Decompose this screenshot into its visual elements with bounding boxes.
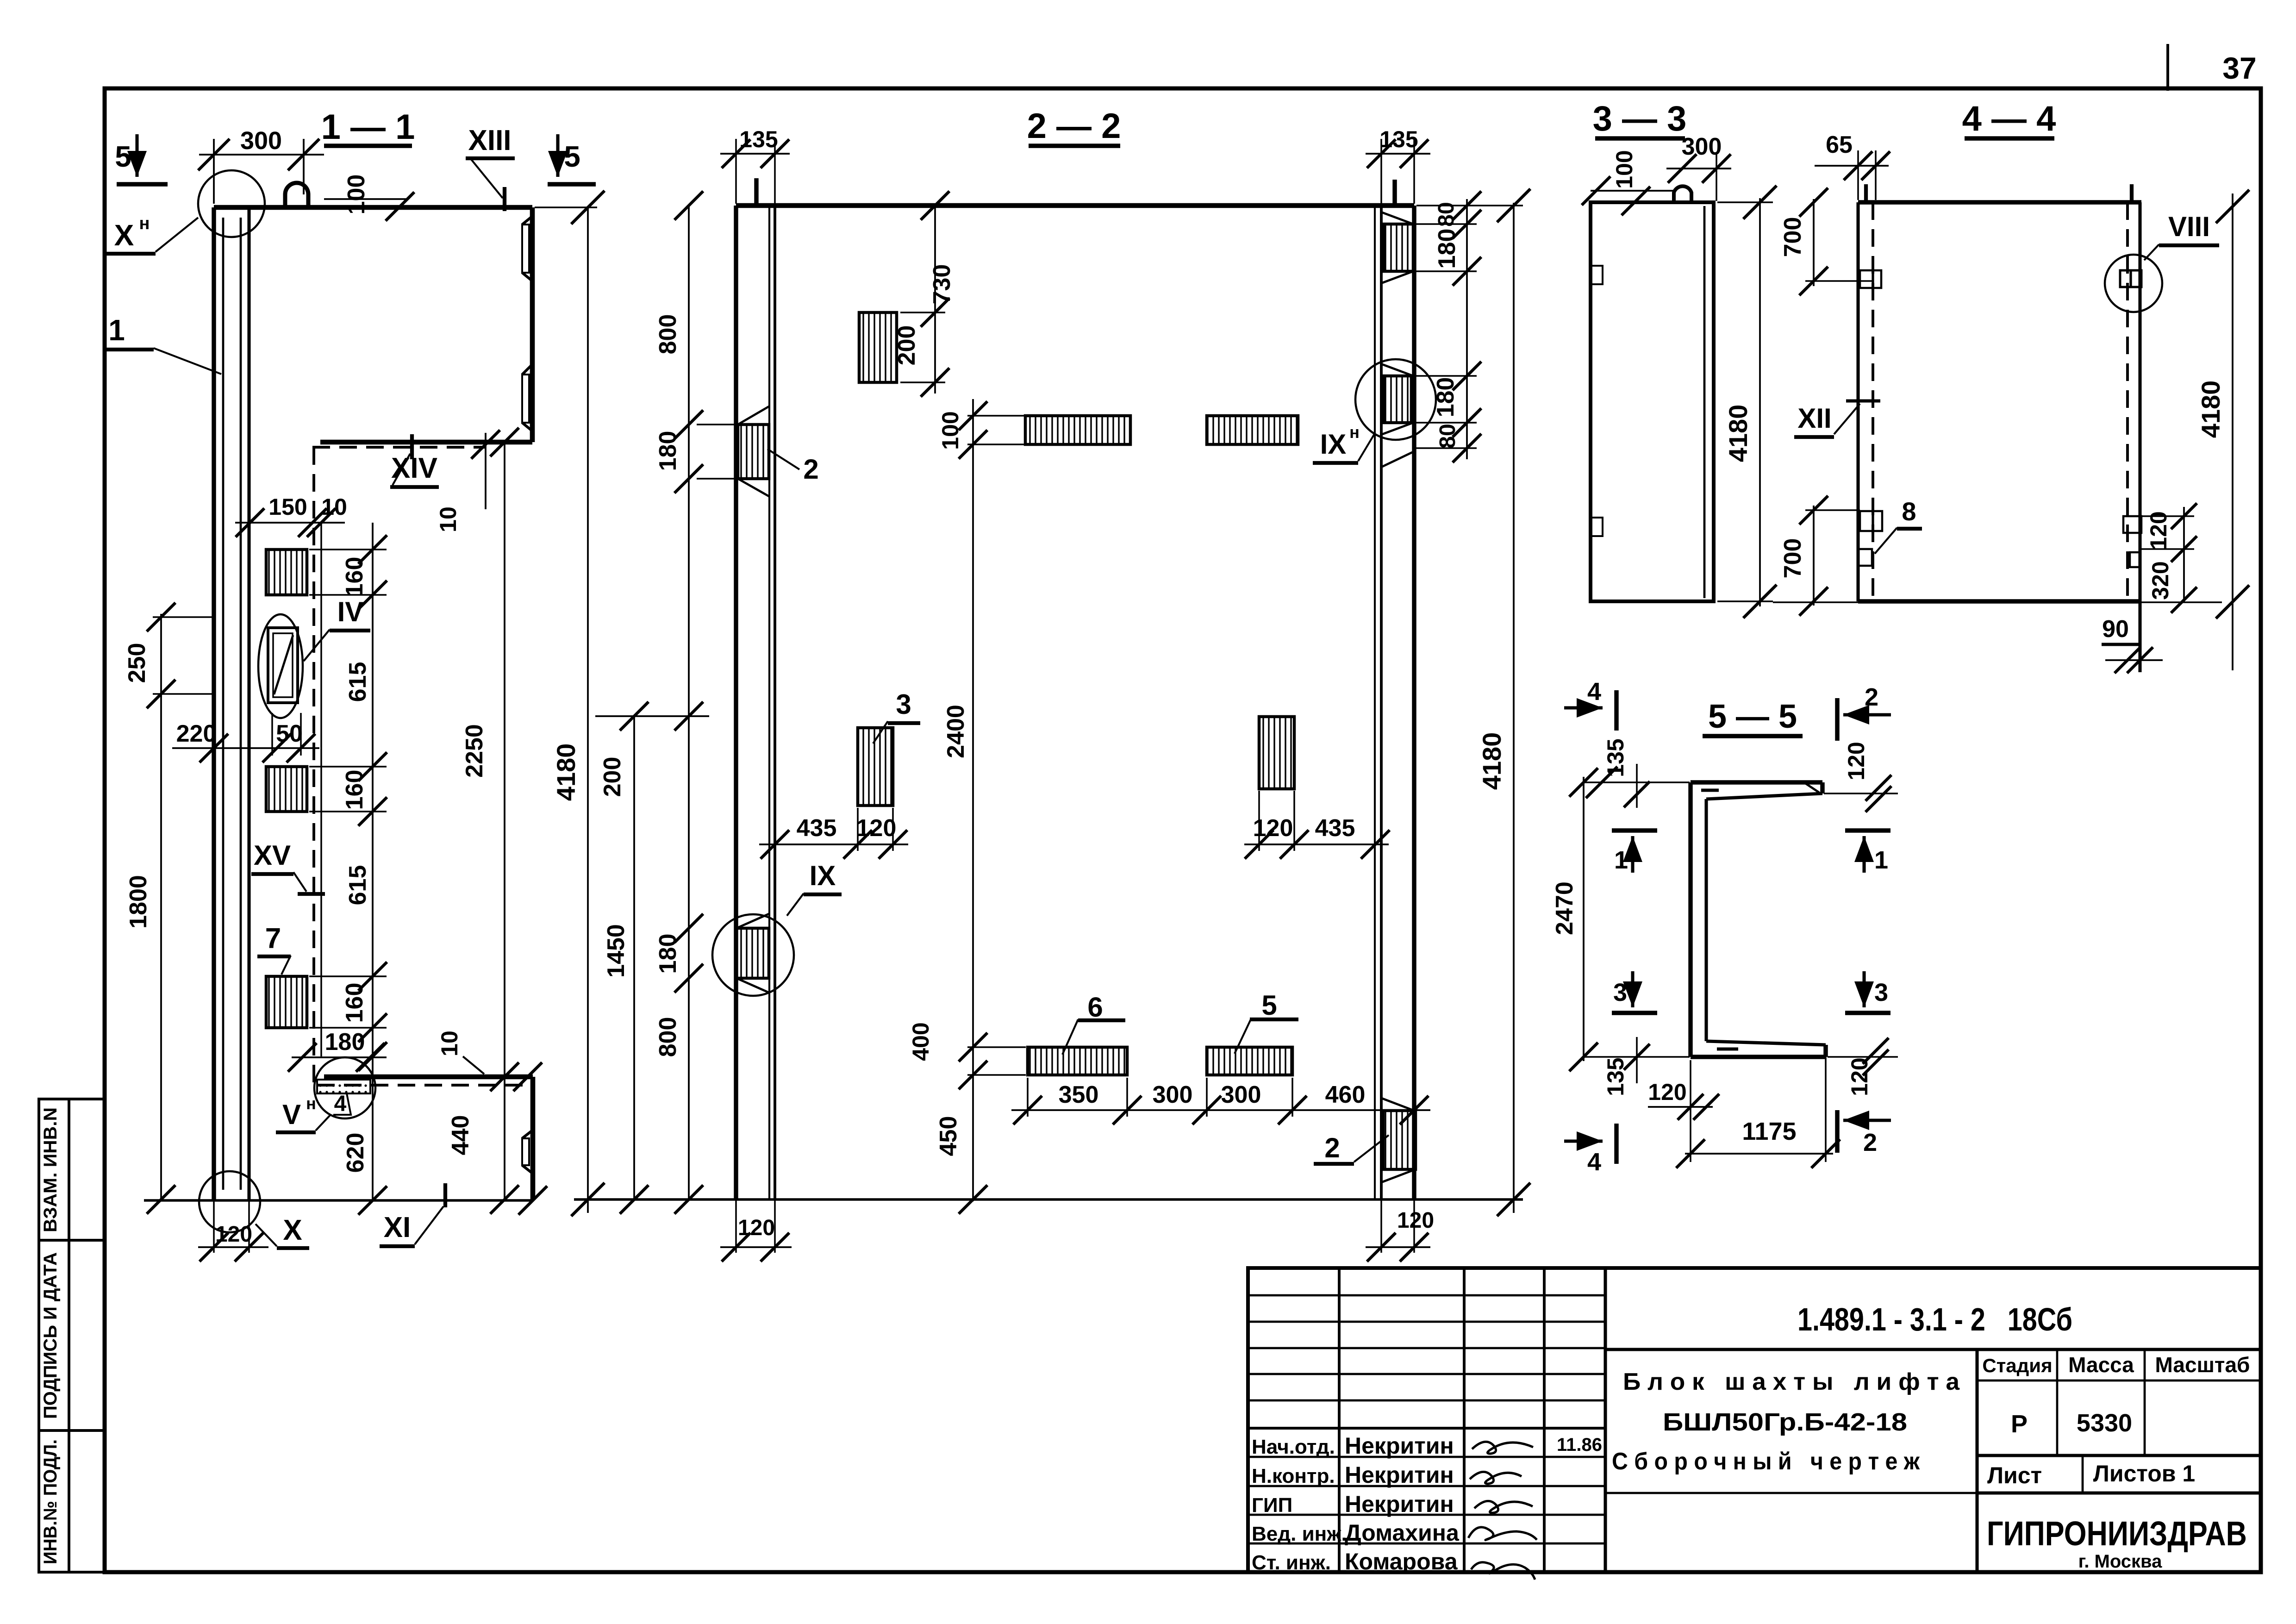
svg-text:450: 450	[935, 1116, 962, 1156]
svg-text:180: 180	[1434, 229, 1460, 269]
svg-text:435: 435	[1315, 815, 1355, 842]
svg-text:135: 135	[739, 126, 778, 152]
wall outline 1-1	[214, 205, 532, 210]
brackets right 4-4	[2123, 516, 2141, 533]
svg-text:Лист: Лист	[1987, 1462, 2042, 1488]
tab upper 3-3	[1591, 266, 1603, 284]
svg-text:5: 5	[1261, 990, 1277, 1021]
svg-text:120: 120	[1648, 1079, 1686, 1105]
svg-text:Масса: Масса	[2068, 1353, 2134, 1377]
svg-text:4: 4	[334, 1092, 347, 1116]
svg-text:н: н	[1349, 423, 1360, 442]
document stamp strip	[39, 1099, 105, 1572]
svg-text:ГИП: ГИП	[1252, 1494, 1292, 1517]
svg-text:XIV: XIV	[391, 452, 437, 484]
plate detail 4	[317, 1080, 370, 1093]
svg-text:Некритин: Некритин	[1345, 1433, 1454, 1459]
svg-text:10: 10	[435, 506, 461, 532]
pin left 4-4	[1864, 184, 1868, 202]
svg-text:ГИПРОНИИЗДРАВ: ГИПРОНИИЗДРАВ	[1987, 1514, 2247, 1553]
svg-text:1175: 1175	[1742, 1118, 1796, 1145]
right face 4-4	[2126, 202, 2129, 601]
svg-text:80: 80	[1435, 424, 1460, 448]
svg-text:С б о р о ч н ы й ч е р т е: С б о р о ч н ы й ч е р т е ж	[1612, 1448, 1920, 1475]
svg-text:800: 800	[655, 314, 681, 355]
svg-text:120: 120	[738, 1216, 775, 1240]
dim 120 bottom wall	[213, 1199, 215, 1253]
svg-text:90: 90	[2102, 616, 2129, 643]
svg-text:Ст. инж.: Ст. инж.	[1252, 1551, 1331, 1574]
svg-text:2250: 2250	[461, 724, 488, 778]
svg-text:БШЛ50Гр.Б-42-18: БШЛ50Гр.Б-42-18	[1663, 1408, 1907, 1436]
svg-text:Некритин: Некритин	[1345, 1491, 1454, 1517]
right dim chain 80-180	[1466, 199, 1468, 459]
svg-text:3: 3	[1613, 979, 1627, 1006]
top plate row left	[1025, 416, 1130, 444]
svg-text:620: 620	[342, 1133, 369, 1173]
plate IV oval	[258, 614, 303, 718]
middle plate 730	[859, 312, 897, 382]
bottom row dims 350 300 300 460	[1011, 1109, 1430, 1111]
svg-text:4 — 4: 4 — 4	[1962, 99, 2056, 138]
svg-text:4180: 4180	[1723, 405, 1753, 462]
svg-text:1.489.1 - 3.1 - 2 18Сб: 1.489.1 - 3.1 - 2 18Сб	[1797, 1301, 2072, 1337]
svg-text:160: 160	[341, 557, 368, 597]
section mark 1 right	[1845, 828, 1890, 832]
dim 10 step top	[485, 433, 487, 509]
svg-text:220: 220	[176, 720, 217, 747]
svg-text:ВЗАМ. ИНВ.N: ВЗАМ. ИНВ.N	[40, 1107, 61, 1232]
right wall 2-2	[1374, 206, 1376, 1199]
embedded plate 7	[266, 976, 307, 1028]
svg-text:120: 120	[1843, 742, 1869, 780]
hidden face line	[312, 447, 315, 1085]
bottom dim line 1-1	[144, 1199, 533, 1201]
svg-text:VIII: VIII	[2168, 211, 2210, 242]
plate 3 left	[858, 728, 893, 806]
svg-text:10: 10	[437, 1031, 462, 1056]
title block thin rows	[1248, 1294, 1605, 1297]
bracket left upper	[1860, 270, 1881, 288]
top cap 4-4	[1858, 200, 2141, 204]
svg-text:160: 160	[341, 770, 368, 810]
svg-text:1800: 1800	[125, 875, 152, 929]
svg-text:730: 730	[929, 264, 955, 305]
svg-text:4180: 4180	[2196, 381, 2225, 438]
svg-text:100: 100	[1611, 150, 1637, 188]
notch bottom rect	[522, 1130, 533, 1138]
dims 435 120 left	[759, 843, 908, 845]
svg-text:1 — 1: 1 — 1	[321, 107, 415, 147]
svg-text:V: V	[282, 1099, 301, 1130]
svg-text:2400: 2400	[942, 705, 969, 758]
svg-text:700: 700	[1779, 217, 1806, 257]
svg-text:300: 300	[1153, 1081, 1193, 1108]
section mark 1 left	[1612, 828, 1657, 832]
svg-text:120: 120	[856, 815, 897, 842]
channel profile 5-5	[1691, 780, 1822, 784]
svg-text:1: 1	[108, 313, 125, 347]
extension lines oval	[271, 713, 273, 756]
svg-text:200: 200	[893, 325, 920, 366]
svg-text:250: 250	[124, 643, 150, 683]
title block outline	[1248, 1268, 2261, 1572]
svg-text:н: н	[306, 1094, 316, 1113]
svg-text:1450: 1450	[603, 924, 630, 978]
detail circle IXn right	[1355, 359, 1436, 440]
svg-text:Листов 1: Листов 1	[2093, 1461, 2195, 1487]
svg-text:2470: 2470	[1551, 881, 1578, 935]
svg-text:5330: 5330	[2077, 1409, 2132, 1437]
left wall plate upper	[738, 425, 769, 479]
svg-text:5: 5	[115, 140, 131, 173]
svg-text:615: 615	[344, 662, 371, 702]
svg-text:11.86: 11.86	[1557, 1435, 1602, 1455]
detail circle V4	[314, 1057, 375, 1118]
title block name rows	[1248, 1456, 1605, 1458]
svg-text:100: 100	[343, 175, 370, 215]
svg-text:2: 2	[803, 454, 818, 485]
svg-text:615: 615	[344, 865, 371, 906]
tab lower 3-3	[1591, 518, 1603, 536]
svg-text:3: 3	[896, 689, 911, 720]
svg-text:8: 8	[1902, 497, 1916, 526]
notch lower	[522, 364, 532, 375]
svg-text:X: X	[283, 1214, 302, 1246]
svg-text:100: 100	[937, 411, 963, 450]
svg-text:180: 180	[655, 431, 681, 471]
svg-text:Б л о к ш а х т ы л и ф т: Б л о к ш а х т ы л и ф т а	[1623, 1368, 1960, 1395]
detail circle X bottom	[199, 1171, 260, 1232]
svg-text:435: 435	[797, 815, 837, 842]
svg-text:460: 460	[1325, 1081, 1366, 1108]
svg-text:4: 4	[1587, 1148, 1601, 1176]
bottom plate 2 right wall	[1383, 1111, 1416, 1169]
svg-text:37: 37	[2222, 51, 2256, 85]
dim chain right of wall	[372, 523, 374, 1056]
svg-text:120: 120	[1397, 1208, 1434, 1233]
embedded plate mid	[266, 767, 307, 812]
svg-text:180: 180	[325, 1029, 365, 1056]
section mark 2 bottom right	[1835, 1110, 1839, 1153]
left wall 2-2	[734, 206, 738, 1199]
svg-text:ИНВ.№ ПОДЛ.: ИНВ.№ ПОДЛ.	[40, 1439, 61, 1564]
section mark 2 top right	[1835, 698, 1839, 741]
designation row	[1605, 1348, 2261, 1351]
bracket left low	[1858, 549, 1872, 566]
svg-text:5: 5	[564, 140, 580, 173]
section mark 3 right	[1845, 1011, 1890, 1015]
bottom slab rectangle	[324, 1074, 533, 1080]
svg-text:10: 10	[321, 494, 347, 520]
bottom plate 5	[1207, 1047, 1292, 1075]
svg-text:Вед. инж.: Вед. инж.	[1252, 1523, 1347, 1545]
bottom dim line 2-2	[574, 1198, 1523, 1200]
svg-text:6: 6	[1087, 992, 1103, 1023]
svg-text:IV: IV	[337, 596, 364, 627]
svg-text:4: 4	[1587, 678, 1601, 706]
embedded plate top	[266, 550, 307, 595]
svg-text:Стадия: Стадия	[1982, 1355, 2052, 1376]
detail circle VIII	[2105, 255, 2162, 312]
loop 3-3	[1674, 186, 1691, 202]
svg-text:X: X	[114, 219, 134, 252]
stamp right grid	[1975, 1349, 1978, 1572]
top slab rectangle	[530, 207, 535, 442]
svg-text:150: 150	[268, 494, 307, 520]
detail circle Xn	[198, 170, 265, 237]
dims 120 435 right	[1244, 843, 1389, 845]
svg-text:4180: 4180	[1477, 732, 1506, 790]
top slab line 2-2	[736, 203, 1414, 208]
svg-text:4180: 4180	[551, 743, 580, 801]
bottom plate 6	[1028, 1047, 1127, 1075]
bracket left mid	[1860, 511, 1882, 531]
svg-text:Р: Р	[2011, 1410, 2028, 1438]
panel outline 3-3	[1591, 202, 1714, 601]
svg-text:2: 2	[1324, 1132, 1340, 1163]
title block columns	[1338, 1268, 1341, 1572]
top plate row right	[1207, 416, 1298, 444]
left dim chain 800-180	[688, 206, 690, 1199]
pin right 4-4	[2130, 184, 2134, 202]
svg-text:2: 2	[1863, 1129, 1877, 1156]
svg-text:XII: XII	[1797, 403, 1831, 434]
svg-text:Нач.отд.: Нач.отд.	[1252, 1436, 1335, 1458]
svg-text:7: 7	[265, 923, 281, 955]
section mark 3 left	[1612, 1011, 1657, 1015]
dim 100 row	[967, 415, 1024, 417]
svg-text:700: 700	[1779, 538, 1806, 579]
svg-text:300: 300	[1221, 1081, 1261, 1108]
bottom cap 4-4	[1858, 599, 2141, 603]
svg-text:5 — 5: 5 — 5	[1708, 698, 1797, 735]
signatures	[1472, 1442, 1533, 1454]
svg-text:2: 2	[1865, 683, 1878, 711]
svg-text:1: 1	[1874, 846, 1888, 874]
dim 120 left wall bottom	[735, 1199, 737, 1253]
section mark 4 bottom left	[1564, 1139, 1603, 1143]
right wall plate upper	[1384, 224, 1413, 271]
svg-text:Некритин: Некритин	[1345, 1462, 1454, 1488]
svg-text:65: 65	[1826, 131, 1853, 158]
svg-text:1: 1	[1614, 846, 1628, 874]
svg-text:XI: XI	[384, 1212, 411, 1243]
svg-text:Масштаб: Масштаб	[2155, 1353, 2250, 1377]
dim 120 right wall bottom	[1380, 1199, 1382, 1253]
svg-text:3 — 3: 3 — 3	[1593, 99, 1687, 138]
svg-text:800: 800	[655, 1017, 681, 1057]
svg-text:Комарова: Комарова	[1345, 1549, 1458, 1574]
svg-text:300: 300	[240, 127, 282, 155]
svg-text:320: 320	[2147, 561, 2173, 600]
left face 4-4	[1856, 202, 1859, 601]
svg-text:ПОДПИСЬ И ДАТА: ПОДПИСЬ И ДАТА	[40, 1252, 61, 1419]
svg-text:440: 440	[447, 1115, 474, 1156]
svg-text:350: 350	[1059, 1081, 1099, 1108]
svg-text:135: 135	[1603, 1057, 1628, 1096]
svg-text:2 — 2: 2 — 2	[1027, 106, 1121, 146]
svg-text:160: 160	[341, 983, 368, 1023]
svg-text:XV: XV	[254, 840, 291, 871]
pin left	[754, 178, 758, 206]
svg-text:XIII: XIII	[468, 125, 511, 156]
notch upper	[522, 216, 532, 225]
svg-text:IX: IX	[1320, 429, 1347, 460]
svg-text:135: 135	[1603, 738, 1628, 777]
svg-text:120: 120	[1253, 815, 1293, 842]
lifting loop	[285, 183, 308, 207]
svg-text:120: 120	[1847, 1057, 1872, 1096]
svg-text:400: 400	[908, 1022, 934, 1061]
svg-text:н: н	[139, 214, 150, 233]
svg-text:180: 180	[655, 934, 681, 974]
svg-text:Домахина: Домахина	[1345, 1520, 1460, 1546]
svg-text:120: 120	[2146, 511, 2171, 550]
svg-text:г. Москва: г. Москва	[2078, 1551, 2162, 1572]
detail circle IX left	[712, 914, 794, 996]
pin right	[1392, 180, 1397, 206]
svg-text:Н.контр.: Н.контр.	[1252, 1465, 1335, 1487]
svg-text:200: 200	[599, 757, 626, 797]
svg-text:IX: IX	[810, 860, 836, 891]
svg-text:3: 3	[1874, 979, 1888, 1006]
plate mid right	[1259, 717, 1294, 789]
